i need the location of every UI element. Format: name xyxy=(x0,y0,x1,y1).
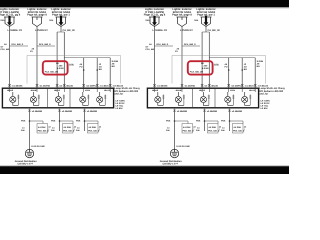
wiring diagram: rear exterior lamps, two half-schematics xyxy=(0,0,289,174)
bottom black bar xyxy=(0,165,289,166)
left half schematic xyxy=(0,8,141,166)
top black bar xyxy=(0,0,289,7)
right half schematic xyxy=(144,8,286,166)
